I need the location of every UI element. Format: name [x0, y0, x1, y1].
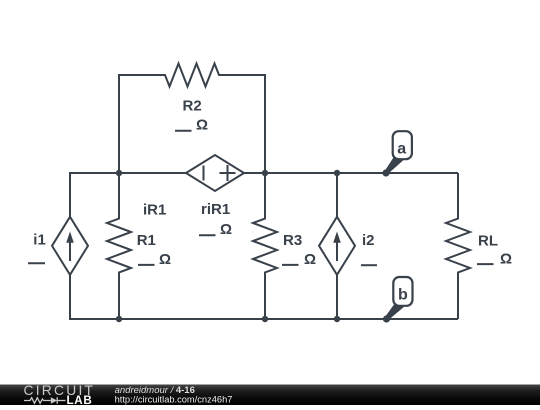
label R1 value: [138, 251, 171, 268]
node b callout box: [393, 277, 412, 306]
wire i1 bottom lead: [69, 275, 71, 320]
CircuitLab logo resistor/diode glyph: [24, 397, 66, 404]
current source i1 arrow: [69, 241, 71, 261]
wire R2 right vertical: [264, 74, 266, 173]
junction dot bottom R3: [262, 316, 268, 322]
label R3 value: [282, 251, 316, 268]
svg-text:Ω: Ω: [159, 251, 171, 268]
dependent source U1 riR1 diamond: [186, 155, 244, 191]
svg-text:Ω: Ω: [500, 251, 512, 268]
svg-text:R3: R3: [283, 232, 302, 249]
svg-text:i1: i1: [33, 231, 46, 248]
node b pointer wedge: [386, 303, 404, 320]
node a callout box: [393, 131, 412, 159]
wire i2 top lead: [336, 173, 338, 217]
label RL value: [477, 251, 512, 268]
wire main horizontal right segment (top rail): [244, 172, 458, 174]
current source i1 diamond: [52, 217, 88, 275]
svg-text:R1: R1: [137, 232, 156, 249]
svg-text:a: a: [397, 141, 406, 158]
resistor RL: [446, 173, 470, 319]
dependent source U1 minus mark: [203, 166, 205, 181]
resistor R2: [119, 64, 265, 87]
svg-text:riR1: riR1: [201, 201, 230, 218]
wire main horizontal left segment (top rail): [70, 172, 186, 174]
current source i2 arrow: [336, 241, 338, 261]
junction dot top R1: [116, 170, 122, 176]
svg-text:b: b: [398, 287, 408, 304]
svg-text:Ω: Ω: [196, 117, 208, 134]
svg-text:i2: i2: [362, 232, 375, 249]
node a pointer wedge: [385, 156, 403, 173]
svg-text:Ω: Ω: [220, 221, 232, 238]
label i1 value: [28, 262, 45, 264]
resistor R3: [253, 173, 277, 319]
svg-text:Ω: Ω: [304, 251, 316, 268]
wire bottom rail: [70, 318, 458, 320]
label riR1 value: [199, 221, 232, 238]
svg-text:R2: R2: [183, 98, 202, 115]
wire R2 left vertical: [118, 74, 120, 173]
junction dot top i2: [334, 170, 340, 176]
junction dot bottom i2: [334, 316, 340, 322]
CircuitLab logo wordmark: [24, 383, 96, 407]
dependent source U1 plus mark: [220, 172, 236, 174]
resistor R1: [107, 173, 131, 319]
node a dot: [382, 169, 389, 176]
junction dot bottom R1: [116, 316, 122, 322]
junction dot top R2 right: [262, 170, 268, 176]
wire i2 bottom lead: [336, 275, 338, 319]
current source i2 diamond: [319, 217, 355, 275]
label R2 value: [175, 117, 208, 134]
label i2 value: [361, 264, 377, 266]
svg-text:iR1: iR1: [143, 202, 166, 219]
svg-text:http://circuitlab.com/cnz46h7: http://circuitlab.com/cnz46h7: [115, 394, 233, 404]
node b dot: [383, 315, 390, 322]
svg-text:RL: RL: [478, 233, 498, 250]
svg-text:LAB: LAB: [67, 394, 93, 405]
wire i1 top lead: [69, 172, 71, 217]
